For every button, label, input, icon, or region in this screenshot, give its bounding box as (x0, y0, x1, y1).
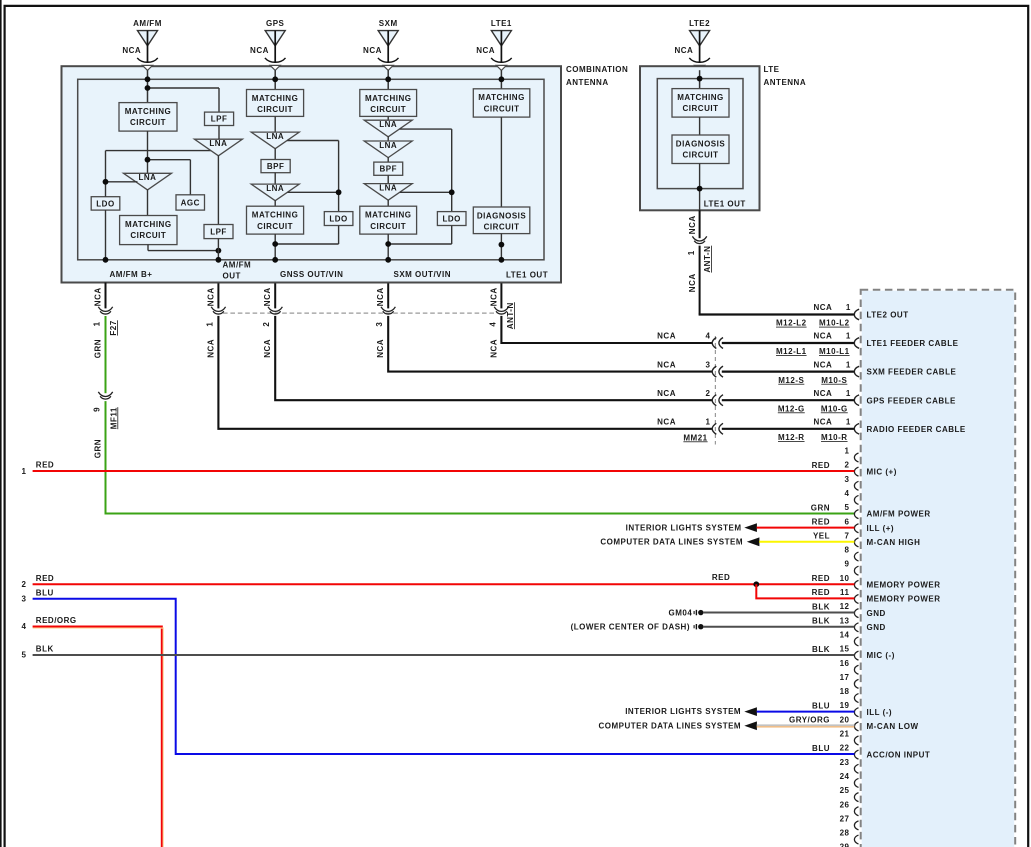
wire GPS LNA2 to MC2 (274, 200, 276, 206)
svg-text:YEL: YEL (813, 532, 830, 541)
page edge line (0, 0, 2, 847)
wire RED row 1 to MIC+ (33, 470, 855, 472)
amplifier LNA AM/FM (124, 173, 172, 190)
svg-text:15: 15 (840, 645, 850, 654)
svg-text:M10-R: M10-R (821, 433, 848, 442)
svg-text:DIAGNOSIS: DIAGNOSIS (676, 139, 726, 148)
junction LTE shield bottom (697, 186, 703, 192)
svg-text:1: 1 (846, 389, 851, 398)
svg-text:LDO: LDO (443, 214, 461, 223)
connector multi pin 1 (211, 307, 225, 314)
wire GPS BPF to LNA2 (274, 173, 276, 184)
antenna LTE1 (476, 19, 512, 63)
wire output stub x275.2 (274, 283, 276, 308)
svg-text:RED: RED (812, 574, 830, 583)
svg-text:NCA: NCA (206, 339, 215, 358)
svg-text:LPF: LPF (210, 227, 227, 236)
svg-text:ACC/ON INPUT: ACC/ON INPUT (867, 750, 931, 759)
svg-text:M12-G: M12-G (778, 404, 805, 413)
wire GPS MC to LNA1 (274, 116, 276, 132)
wire SXM LDO return (388, 243, 452, 245)
svg-text:NCA: NCA (657, 389, 676, 398)
connector head unit pin 15 (854, 651, 858, 660)
svg-text:BPF: BPF (267, 162, 285, 171)
connector head unit pin 7 (854, 538, 858, 547)
svg-text:NCA: NCA (813, 303, 832, 312)
svg-text:M12-S: M12-S (778, 376, 804, 385)
svg-text:M10-S: M10-S (821, 376, 847, 385)
svg-text:CIRCUIT: CIRCUIT (370, 222, 406, 231)
svg-text:NCA: NCA (688, 273, 697, 292)
svg-text:RED: RED (36, 461, 54, 470)
svg-text:BLK: BLK (812, 617, 830, 626)
svg-text:M12-L1: M12-L1 (776, 347, 807, 356)
svg-text:GND: GND (867, 609, 886, 618)
connector head unit pin 12 (854, 609, 858, 618)
junction on shield bottom bus (216, 257, 222, 263)
wire LTE MC to diagnosis (699, 117, 701, 135)
connector head unit pin 14 (854, 637, 858, 646)
svg-text:1: 1 (22, 467, 27, 476)
arrow computer data upper (747, 537, 760, 546)
svg-text:SXM OUT/VIN: SXM OUT/VIN (394, 270, 452, 279)
svg-text:LNA: LNA (209, 139, 227, 148)
entry notch LTE1 (496, 65, 506, 70)
svg-text:11: 11 (840, 588, 850, 597)
wire GPS MC2 to bus (274, 234, 276, 260)
entry notch GPS (270, 65, 280, 70)
band pass filter SXM BPF (374, 162, 403, 175)
svg-text:NCA: NCA (206, 287, 215, 306)
connector head unit pin 11 (854, 595, 858, 604)
svg-text:RED: RED (812, 461, 830, 470)
junction GPS LDO rail (336, 189, 342, 195)
svg-text:CIRCUIT: CIRCUIT (370, 105, 406, 114)
svg-text:CIRCUIT: CIRCUIT (257, 222, 293, 231)
entry notch SXM (383, 65, 393, 70)
junction AGC branch (145, 157, 151, 163)
antenna LTE2 (674, 19, 710, 63)
junction on shield top (145, 76, 151, 82)
connector head unit pin 17 (854, 679, 858, 688)
svg-text:1: 1 (846, 303, 851, 312)
junction on shield top (272, 76, 278, 82)
svg-text:1: 1 (846, 332, 851, 341)
svg-text:MATCHING: MATCHING (252, 211, 299, 220)
junction GPS return (272, 241, 278, 247)
svg-text:AM/FM: AM/FM (223, 261, 252, 270)
wire output run 1 (218, 316, 712, 429)
wire AM/FM into box (147, 70, 149, 102)
low pass filter LPF2 (204, 225, 233, 239)
svg-text:MATCHING: MATCHING (365, 94, 412, 103)
svg-text:CIRCUIT: CIRCUIT (130, 118, 166, 127)
svg-text:3: 3 (375, 322, 384, 327)
wire branch to AGC (148, 159, 191, 161)
matching circuit AM/FM output (120, 216, 177, 245)
svg-text:COMPUTER DATA LINES SYSTEM: COMPUTER DATA LINES SYSTEM (600, 537, 743, 546)
svg-text:3: 3 (706, 360, 711, 369)
svg-text:COMBINATION: COMBINATION (566, 65, 628, 74)
svg-text:MIC (-): MIC (-) (867, 651, 895, 660)
wire GPS LDO rail (287, 140, 338, 142)
arrow interior lights upper (744, 523, 757, 532)
svg-text:1: 1 (92, 321, 101, 326)
svg-text:NCA: NCA (657, 360, 676, 369)
wire LTE2 out vertical lower (699, 246, 701, 315)
matching circuit SXM input (360, 90, 417, 117)
wire LDO to bus (105, 210, 107, 260)
low pass filter LPF1 (205, 112, 234, 125)
LDO block GPS (324, 212, 353, 226)
junction LTE1 below diagnosis (499, 242, 505, 248)
connector head unit feeder row 0 (854, 309, 859, 320)
AGC block (176, 195, 205, 210)
svg-text:M-CAN HIGH: M-CAN HIGH (867, 538, 921, 547)
connector ANT-N (692, 236, 706, 243)
ground GM04 pin 12 (694, 610, 703, 615)
svg-text:27: 27 (840, 814, 850, 823)
wire SXM MC2 to bus (387, 234, 389, 260)
connector head unit pin 1 (854, 453, 858, 462)
wire LTE1 into box (500, 70, 502, 89)
svg-text:OUT: OUT (223, 272, 241, 281)
svg-text:RED/ORG: RED/ORG (36, 616, 77, 625)
svg-text:LTE2 OUT: LTE2 OUT (867, 311, 909, 320)
wire MC to LNA AM/FM (147, 131, 149, 173)
svg-text:NCA: NCA (813, 360, 832, 369)
svg-text:NCA: NCA (657, 332, 676, 341)
wire output stub x388.2 (387, 283, 389, 308)
wire output run 4 (501, 316, 712, 343)
wire LPF2 to bus (217, 239, 219, 260)
svg-text:CIRCUIT: CIRCUIT (683, 104, 719, 113)
wire feeder right row 1 (722, 342, 855, 344)
connector head unit feeder row 1 (854, 338, 859, 349)
svg-text:1: 1 (706, 418, 711, 427)
svg-text:GM04: GM04 (669, 608, 693, 617)
connector head unit pin 16 (854, 665, 858, 674)
svg-text:MM21: MM21 (683, 433, 707, 442)
svg-text:GPS: GPS (266, 19, 285, 28)
svg-text:ANT-N: ANT-N (703, 246, 712, 273)
connector head unit pin 4 (854, 495, 858, 504)
wire AM/FM branch to LPF (148, 87, 220, 89)
connector head unit pin 23 (854, 764, 858, 773)
svg-text:16: 16 (840, 659, 850, 668)
break connector row 3 (712, 395, 716, 406)
svg-text:NCA: NCA (813, 389, 832, 398)
wire LTE1 diag to bus (500, 234, 502, 260)
svg-text:4: 4 (488, 322, 497, 327)
connector head unit pin 27 (854, 821, 858, 830)
band pass filter GPS BPF (261, 160, 290, 173)
svg-text:SXM FEEDER CABLE: SXM FEEDER CABLE (867, 368, 957, 377)
wire BLU ILL- (757, 711, 855, 713)
svg-text:MATCHING: MATCHING (252, 94, 299, 103)
connector multi pin 2 (268, 307, 282, 314)
connector multi pin 4 (494, 307, 508, 314)
svg-text:BLK: BLK (36, 645, 54, 654)
svg-text:18: 18 (840, 687, 850, 696)
connector F27 (98, 307, 112, 314)
connector head unit pin 19 (854, 708, 858, 717)
matching circuit AM/FM input (119, 103, 177, 132)
antenna SXM (363, 19, 398, 63)
wire SXM LNA3 to MC2 (387, 200, 389, 206)
wire GPS LDO return (275, 243, 338, 245)
svg-text:F27: F27 (109, 320, 118, 335)
svg-text:LNA: LNA (266, 184, 284, 193)
wire GRY/ORG M-CAN LOW (757, 724, 855, 726)
svg-text:20: 20 (840, 715, 850, 724)
svg-text:LTE2: LTE2 (689, 19, 710, 28)
junction SXM return (385, 241, 391, 247)
svg-text:1: 1 (846, 418, 851, 427)
svg-text:9: 9 (845, 560, 850, 569)
svg-text:BLU: BLU (812, 744, 830, 753)
wire AM/FM B+ stub (105, 283, 107, 309)
connector head unit pin 24 (854, 778, 858, 787)
svg-text:(LOWER CENTER OF DASH): (LOWER CENTER OF DASH) (571, 623, 690, 632)
svg-text:LTE1 OUT: LTE1 OUT (506, 271, 548, 280)
svg-text:LDO: LDO (329, 214, 347, 223)
svg-text:25: 25 (840, 786, 850, 795)
svg-text:ILL (-): ILL (-) (867, 708, 893, 717)
svg-text:CIRCUIT: CIRCUIT (484, 223, 520, 232)
wire feeder right row 3 (722, 399, 855, 401)
svg-text:NCA: NCA (476, 46, 495, 55)
matching circuit SXM output (360, 206, 417, 234)
svg-text:2: 2 (262, 322, 271, 327)
matching circuit GPS output (247, 206, 304, 234)
svg-text:CIRCUIT: CIRCUIT (130, 231, 166, 240)
svg-text:DIAGNOSIS: DIAGNOSIS (477, 211, 527, 220)
svg-text:AM/FM B+: AM/FM B+ (110, 270, 153, 279)
entry notch LTE2 (695, 65, 705, 70)
svg-text:4: 4 (845, 489, 850, 498)
junction on shield top (385, 76, 391, 82)
connector head unit feeder row 4 (854, 424, 859, 435)
svg-text:NCA: NCA (376, 287, 385, 306)
wire SXM LDO rail (400, 128, 452, 130)
junction on shield bottom bus (385, 257, 391, 263)
svg-text:8: 8 (845, 546, 850, 555)
svg-text:NCA: NCA (93, 287, 102, 306)
connector head unit pin 28 (854, 835, 858, 844)
svg-text:LNA: LNA (379, 183, 397, 192)
svg-text:BPF: BPF (380, 165, 398, 174)
svg-text:BLU: BLU (812, 701, 830, 710)
connector head unit pin 20 (854, 722, 858, 731)
svg-text:14: 14 (840, 630, 850, 639)
amplifier SXM LNA3 (364, 184, 412, 201)
svg-text:MEMORY POWER: MEMORY POWER (867, 580, 941, 589)
svg-text:M10-G: M10-G (821, 404, 848, 413)
svg-text:CIRCUIT: CIRCUIT (257, 105, 293, 114)
svg-text:NCA: NCA (122, 46, 141, 55)
wire LTE2 out horizontal (699, 313, 855, 315)
ground GM04 pin 13 (694, 624, 703, 629)
svg-text:2: 2 (706, 389, 711, 398)
svg-text:1: 1 (845, 447, 850, 456)
connector head unit pin 26 (854, 807, 858, 816)
svg-text:LNA: LNA (379, 120, 397, 129)
svg-text:RED: RED (36, 574, 54, 583)
svg-text:GRN: GRN (93, 339, 102, 358)
combination antenna box U1 (62, 66, 562, 282)
svg-text:NCA: NCA (657, 418, 676, 427)
svg-text:GRY/ORG: GRY/ORG (789, 716, 830, 725)
svg-text:NCA: NCA (376, 339, 385, 358)
svg-text:28: 28 (840, 829, 850, 838)
wire GPS into box (274, 70, 276, 89)
svg-text:NCA: NCA (489, 287, 498, 306)
wire LNA to matching circuit 2 (147, 190, 149, 216)
wire output run 3 (388, 316, 712, 372)
junction on shield bottom bus (272, 257, 278, 263)
break connector dashed line (714, 336, 716, 445)
junction on shield bottom bus (103, 257, 109, 263)
junction LTE shield top (697, 76, 703, 82)
wire SXM into box (387, 70, 389, 89)
wire SXM LNA2 to BPF (387, 157, 389, 162)
svg-text:BLU: BLU (36, 588, 54, 597)
junction AM/FM branch (145, 85, 151, 91)
diagnosis circuit LTE antenna (672, 135, 729, 164)
svg-text:NCA: NCA (263, 287, 272, 306)
svg-text:LNA: LNA (139, 173, 157, 182)
svg-text:CIRCUIT: CIRCUIT (484, 104, 520, 113)
svg-text:4: 4 (22, 622, 27, 631)
svg-text:LNA: LNA (266, 132, 284, 141)
svg-text:GNSS OUT/VIN: GNSS OUT/VIN (280, 270, 343, 279)
wire feeder right row 4 (722, 428, 855, 430)
svg-text:RED: RED (812, 517, 830, 526)
svg-text:MATCHING: MATCHING (365, 211, 412, 220)
svg-text:22: 22 (840, 744, 850, 753)
connector multi pin 3 (381, 307, 395, 314)
wire LTE1 MC to diagnosis (500, 117, 502, 207)
svg-text:NCA: NCA (688, 215, 697, 234)
svg-text:M12-L2: M12-L2 (776, 319, 807, 328)
wire LPF1 to LNA (218, 126, 220, 140)
wire RED row 2 memory power (33, 583, 855, 585)
svg-text:ANTENNA: ANTENNA (764, 78, 807, 87)
svg-text:NCA: NCA (489, 339, 498, 358)
wire GRN lower segment to pin 5 (106, 401, 855, 513)
amplifier SXM LNA1 (364, 120, 412, 137)
svg-text:NCA: NCA (813, 332, 832, 341)
svg-text:12: 12 (840, 602, 850, 611)
junction MC2 join (216, 248, 222, 254)
wire GPS LNA1 to BPF (274, 148, 276, 159)
svg-text:M-CAN LOW: M-CAN LOW (867, 722, 919, 731)
connector head unit pin 25 (854, 793, 858, 802)
matching circuit LTE antenna (672, 89, 729, 118)
arrow computer data lower (744, 721, 757, 730)
svg-text:AGC: AGC (181, 198, 200, 207)
wire output run 2 (275, 316, 712, 400)
svg-text:NCA: NCA (250, 46, 269, 55)
svg-text:GRN: GRN (811, 503, 830, 512)
matching circuit GPS input (247, 90, 304, 117)
svg-text:NCA: NCA (263, 339, 272, 358)
svg-text:21: 21 (840, 730, 850, 739)
svg-text:10: 10 (840, 574, 850, 583)
svg-text:1: 1 (687, 250, 696, 255)
wire YEL M-CAN HIGH (759, 541, 854, 543)
wire RED/ORG row 4 (33, 627, 162, 847)
wire feeder right row 2 (722, 371, 855, 373)
junction LDO rail (103, 179, 109, 185)
svg-text:INTERIOR LIGHTS SYSTEM: INTERIOR LIGHTS SYSTEM (626, 523, 742, 532)
amplifier GPS LNA1 (251, 132, 299, 149)
LTE antenna box U2 (640, 66, 760, 210)
svg-text:RADIO FEEDER CABLE: RADIO FEEDER CABLE (867, 425, 966, 434)
svg-text:19: 19 (840, 701, 850, 710)
svg-text:MATCHING: MATCHING (478, 93, 525, 102)
connector head unit pin 2 (854, 467, 858, 476)
wire RED to pin 11 (756, 584, 854, 598)
connector head unit pin 9 (854, 566, 858, 575)
svg-text:LTE1 OUT: LTE1 OUT (704, 200, 746, 209)
wire output stub x218.4 (217, 283, 219, 308)
svg-text:LPF: LPF (211, 115, 228, 124)
svg-text:MIC (+): MIC (+) (867, 467, 897, 476)
wire LTE2 out vertical upper (699, 210, 701, 238)
svg-text:GND: GND (867, 623, 886, 632)
connector head unit pin 18 (854, 694, 858, 703)
svg-text:26: 26 (840, 800, 850, 809)
svg-text:RED: RED (712, 573, 730, 582)
svg-text:2: 2 (845, 461, 850, 470)
svg-text:9: 9 (92, 407, 101, 412)
junction on shield top (499, 76, 505, 82)
svg-text:13: 13 (840, 616, 850, 625)
svg-text:3: 3 (22, 595, 27, 604)
connector head unit pin 13 (854, 623, 858, 632)
combination antenna inner shield rectangle (78, 79, 544, 259)
wire BLU row 3 to ACC/ON (33, 599, 855, 754)
wire output stub x501.4 (500, 283, 502, 308)
svg-text:29: 29 (840, 843, 850, 847)
svg-text:ANTENNA: ANTENNA (566, 78, 609, 87)
svg-text:LTE1 FEEDER CABLE: LTE1 FEEDER CABLE (867, 339, 959, 348)
wire LTE2 into box (699, 70, 701, 88)
wire MC2 to AM/FM OUT (147, 245, 149, 251)
svg-text:NCA: NCA (674, 46, 693, 55)
svg-text:SXM: SXM (379, 19, 398, 28)
wire SXM BPF to LNA3 (387, 175, 389, 183)
LTE antenna inner shield rectangle (657, 79, 743, 189)
connector head unit pin 6 (854, 524, 858, 533)
svg-text:INTERIOR LIGHTS SYSTEM: INTERIOR LIGHTS SYSTEM (625, 707, 741, 716)
svg-text:MEMORY POWER: MEMORY POWER (867, 595, 941, 604)
svg-text:23: 23 (840, 758, 850, 767)
matching circuit LTE1 (473, 89, 530, 117)
LDO block SXM (437, 212, 466, 226)
svg-text:GRN: GRN (93, 439, 102, 458)
break connector row 4 (712, 423, 716, 434)
junction memory power (753, 581, 759, 587)
svg-text:M10-L1: M10-L1 (819, 347, 850, 356)
svg-text:7: 7 (845, 531, 850, 540)
svg-text:LTE1: LTE1 (491, 19, 512, 28)
wire BLK GND pin 12 (703, 612, 854, 614)
connector head unit pin 5 (854, 510, 858, 519)
amplifier GPS LNA2 (251, 184, 299, 201)
